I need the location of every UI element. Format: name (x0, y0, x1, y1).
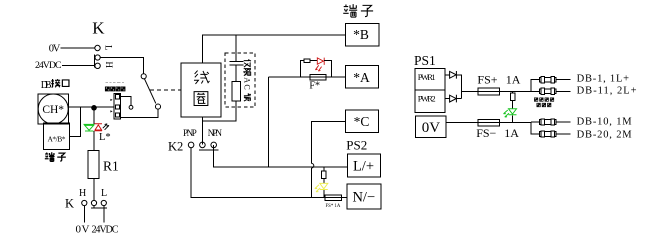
wire R1 to coil terminal (93, 178, 95, 200)
svg-text:K2: K2 (168, 140, 183, 154)
wire 24VDC to contact (62, 65, 95, 67)
wire NPN to L/+ line (214, 145, 348, 167)
wire 0V to fuse (446, 121, 478, 123)
svg-text:DB-1, 1L+: DB-1, 1L+ (577, 73, 630, 84)
terminal CH* circle (38, 94, 68, 124)
bicolor LED L* red half (95, 124, 102, 131)
contact circle K-2 (95, 55, 100, 60)
fuse F* body (310, 74, 326, 80)
wire *C down to N/- line with hop (312, 121, 346, 197)
terminal box N/- (347, 184, 381, 209)
coil terminal circle middle (91, 200, 96, 205)
parallel indicator branch left riser (300, 61, 304, 78)
capacitor plate 2 (230, 64, 244, 66)
terminals label 端子 (top) (343, 4, 357, 17)
junction dot A (91, 105, 97, 111)
indicator branch right riser (324, 61, 331, 78)
terminal box *B (346, 23, 379, 46)
svg-text:FS* 1A: FS* 1A (326, 204, 341, 209)
bus split bottom (531, 122, 540, 134)
svg-text:A*/B*: A*/B* (48, 135, 66, 144)
terminal A*/B* box (44, 123, 70, 149)
svg-text:NPN: NPN (208, 128, 223, 138)
wire link bar under K2 (199, 149, 218, 151)
端子 label (bottom left) (45, 152, 55, 161)
wire link bar under terminals (91, 206, 107, 208)
wire cap to resistor (235, 65, 237, 81)
wire junction down through LED (93, 108, 95, 151)
green LED (PS1 indicator) (504, 109, 517, 117)
svg-text:H: H (79, 188, 86, 199)
contact circle K-1 (95, 45, 100, 50)
svg-text:N/−: N/− (352, 190, 375, 206)
fuse FS* on N/- line (325, 195, 342, 201)
svg-text:*B: *B (353, 27, 369, 42)
bicolor LED L* green half (84, 124, 95, 131)
svg-text:PS1: PS1 (414, 53, 436, 68)
yellow LED (PS2 indicator) (315, 183, 328, 191)
svg-text:24VDC: 24VDC (35, 60, 62, 71)
signal reverse label tiny (信号反向) (105, 87, 125, 91)
diode outputs join (456, 75, 478, 99)
svg-text:DB: DB (41, 80, 52, 91)
switch throw circle (155, 104, 160, 109)
svg-text:PWR2: PWR2 (418, 93, 436, 103)
coil text 线 (194, 71, 209, 84)
svg-text:DB-20, 2M: DB-20, 2M (577, 130, 633, 141)
svg-text:CH*: CH* (42, 104, 64, 116)
connector pin square 1 (115, 95, 119, 99)
wire *A line (269, 76, 346, 78)
wire coil top to *B (202, 35, 345, 63)
coil text 圈 (blue tinted) (194, 92, 208, 106)
switch K contact pole circle (141, 74, 146, 79)
wire hop arc (312, 163, 314, 168)
svg-text:1A: 1A (504, 126, 519, 140)
svg-text:DB-10, 1M: DB-10, 1M (577, 116, 633, 127)
terminal box L/+ (348, 154, 381, 177)
svg-text:L*: L* (99, 132, 111, 143)
svg-text:L: L (104, 45, 114, 51)
svg-text:K: K (92, 19, 105, 38)
PS2 LED branch resistor (323, 167, 325, 171)
svg-text:FS+: FS+ (477, 73, 497, 87)
svg-text:0V: 0V (76, 224, 90, 236)
indicator resistor (304, 59, 310, 62)
wire 24VDC bar (94, 55, 96, 68)
switch linkage dashed wire to coil (150, 89, 181, 91)
svg-text:PWR1: PWR1 (418, 72, 436, 82)
resistor R1 (88, 150, 99, 178)
terminal box *A (345, 65, 378, 88)
svg-text:F*: F* (309, 80, 320, 91)
svg-text:1A: 1A (506, 73, 521, 87)
svg-text:AC: AC (242, 77, 251, 90)
fuse FS- (478, 119, 500, 126)
connector selector arrow 1 (110, 99, 112, 101)
wire PWR1 to diode (445, 74, 450, 76)
connector pin square 2 (115, 105, 119, 109)
svg-text:24VDC: 24VDC (92, 225, 119, 236)
snubber resistor (232, 82, 240, 102)
svg-text:H: H (104, 62, 114, 69)
LED L* emission arrows (103, 124, 109, 130)
diode D1 (450, 71, 457, 79)
svg-text:L/+: L/+ (353, 159, 374, 175)
terminal box *C (345, 110, 378, 133)
wire snubber tap (235, 35, 237, 61)
wire resistor to LED (310, 60, 317, 62)
signal connector body (114, 94, 121, 120)
wire resistor to coil bottom (202, 101, 236, 121)
terminal CH* square (38, 94, 69, 124)
PWR1/PWR2 box (415, 68, 445, 112)
signal reverse spec tiny text row1 (106, 82, 125, 84)
LED branch resistor (PS1) (512, 91, 514, 93)
wire A*/B* up to junction (70, 107, 81, 137)
svg-text:L: L (101, 188, 107, 199)
svg-text:K: K (65, 197, 74, 211)
wire contact K-2 to switch (100, 58, 144, 74)
fuse holder DB-10 (531, 119, 571, 125)
svg-text:R1: R1 (103, 158, 119, 173)
branch DB-11 (531, 90, 540, 92)
K2 circle PNP (188, 142, 194, 148)
svg-text:*A: *A (353, 70, 370, 85)
svg-text:0V: 0V (49, 44, 61, 55)
wire L terminal to 24VDC (103, 208, 105, 223)
wire CH* to signal connector (69, 106, 115, 108)
connector selector arrow 2 (110, 110, 112, 112)
red LED (power indicator) (315, 58, 324, 72)
svg-text:PNP: PNP (183, 128, 197, 138)
coil terminal circle L (101, 200, 106, 205)
svg-text:DB-11, 2L+: DB-11, 2L+ (577, 86, 637, 97)
wire PNP to N/- line (191, 148, 325, 198)
bus split top (531, 80, 540, 92)
tiny label 电源设置 短路帽 (534, 98, 553, 107)
fuse holder DB-1 (540, 77, 571, 83)
wire pin1 to open circle (121, 97, 131, 106)
wire coil bottom to K2 middle (201, 117, 203, 144)
fuse holder DB-20 (540, 131, 571, 137)
diode D2 (450, 95, 457, 103)
wire from *A down to L/+ line (268, 77, 270, 167)
svg-text:FS−: FS− (476, 126, 496, 140)
wire PWR2 to diode (445, 98, 450, 100)
fuse FS+ (478, 88, 500, 95)
K2 circle NPN (211, 142, 217, 148)
terminal box 0V (416, 116, 446, 138)
K2 circle middle (200, 142, 206, 148)
coil terminal circle H (82, 200, 87, 205)
wire 0V to contact (61, 47, 95, 49)
contact circle K-3 (95, 63, 100, 68)
wire pin3 to switch throw (121, 109, 158, 117)
connector pin square 3 (115, 113, 119, 117)
vertical label 仅限AC版 (242, 60, 251, 101)
coil box 线圈 (181, 63, 221, 117)
svg-text:*C: *C (354, 114, 370, 129)
switch blade diagonal (144, 79, 155, 104)
capacitor plate 1 (230, 61, 244, 63)
svg-text:PS2: PS2 (346, 137, 367, 152)
svg-text:0V: 0V (422, 120, 441, 136)
dashed box (AC only snubber) (225, 53, 255, 107)
open terminal circle (129, 105, 133, 109)
wire H terminal to 0V (83, 206, 85, 223)
fuse holder DB-11 (540, 88, 571, 94)
